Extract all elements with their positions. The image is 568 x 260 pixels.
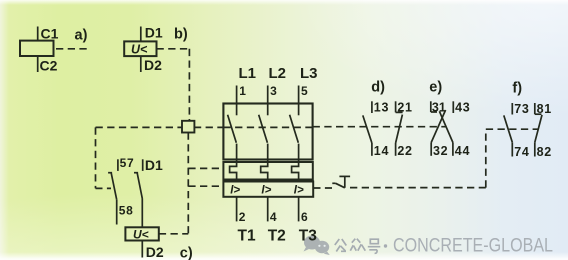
aux contact 13-14 NO [363, 101, 389, 158]
svg-text:L1: L1 [239, 65, 257, 82]
svg-text:58: 58 [119, 203, 134, 217]
contact blade 73-74 [504, 115, 513, 142]
watermark text 公众号 [335, 239, 381, 254]
svg-text:D1: D1 [145, 25, 163, 41]
svg-text:T1: T1 [238, 227, 256, 244]
wire dashed riser bus below square [187, 133, 189, 234]
coil box a [20, 41, 54, 56]
aux contact 43-44 NO [439, 101, 470, 158]
svg-text:3: 3 [270, 84, 277, 98]
undervoltage release b) U< D1-D2 [124, 25, 189, 121]
wire lead terminal 2 [236, 197, 238, 222]
wire pole 3 upper stub [298, 104, 300, 116]
breaker pole 1 contact [228, 104, 237, 160]
aux contact 21-22 NC [396, 101, 413, 158]
svg-text:T3: T3 [299, 227, 317, 244]
blade hook [108, 172, 112, 174]
wire to U< box c [141, 199, 143, 228]
wire pole 2 upper stub [267, 104, 269, 116]
breaker main contact box Q1 [223, 104, 312, 160]
watermark dot [384, 244, 387, 247]
svg-text:T2: T2 [268, 227, 286, 244]
latch post [344, 176, 346, 187]
wire D2 lead [141, 241, 143, 258]
contact blade pole 2 [259, 115, 268, 143]
contact blade D1 [137, 173, 142, 199]
terminal tick 14 [371, 143, 373, 156]
contact blade pole 3 [290, 115, 299, 143]
svg-text:73: 73 [514, 102, 529, 116]
svg-text:43: 43 [455, 101, 470, 115]
svg-text:D2: D2 [144, 57, 162, 73]
wire dashed from U< box c to riser bus [159, 233, 189, 235]
svg-text:1: 1 [239, 84, 246, 98]
terminal tick 31 [430, 101, 432, 112]
terminal tick 13 [371, 101, 373, 113]
terminal tick 21 [395, 101, 397, 112]
svg-text:74: 74 [514, 145, 529, 159]
contact blade 43-44 [439, 111, 453, 142]
svg-text:13: 13 [374, 101, 389, 115]
aux contact D1 of release c [134, 157, 163, 227]
wire lead terminal 6 [298, 197, 300, 222]
wire C1 lead [37, 27, 39, 41]
svg-text:22: 22 [397, 144, 412, 158]
latch crossbar [339, 175, 350, 177]
svg-text:5: 5 [301, 84, 308, 98]
terminal tick 43 [452, 101, 454, 113]
thermal element pole 1 [230, 160, 237, 182]
wire lead terminal 1 [236, 86, 238, 104]
terminal tick 57 [117, 159, 119, 171]
svg-text:32: 32 [433, 144, 448, 158]
terminal tick 81 [534, 103, 536, 114]
NC seat 31 [431, 111, 437, 113]
wire dashed trip line from magnetic box [313, 187, 332, 189]
shunt release a) coil C1-C2 [20, 25, 88, 73]
svg-text:U<: U< [131, 43, 148, 57]
wire dashed actuating line f [486, 128, 538, 130]
terminal tick 32 [430, 143, 432, 156]
contact blade 31-32 [431, 110, 445, 143]
svg-text:c): c) [180, 246, 193, 260]
wire dashed riser to contacts f [485, 129, 487, 187]
contact blade 81-82 [535, 115, 542, 142]
wire dashed left drop to contact 57 [95, 127, 97, 188]
svg-text:U<: U< [133, 227, 149, 241]
wire C2 lead [37, 56, 39, 72]
wire dashed stub from coil a [56, 48, 88, 50]
breaker pole 3 contact [290, 104, 299, 160]
wire pole 1 lower stub [236, 144, 238, 160]
svg-text:14: 14 [374, 144, 389, 158]
svg-text:I>: I> [294, 185, 304, 197]
aux contact 73-74 NO [504, 102, 530, 159]
svg-text:6: 6 [301, 210, 308, 224]
svg-text:a): a) [75, 27, 88, 43]
breaker pole 2 contact [259, 104, 268, 160]
wire to 58 [116, 200, 118, 225]
aux contact 57-58 [108, 156, 134, 225]
svg-text:f): f) [512, 81, 522, 97]
thermal element pole 3 [292, 160, 299, 182]
svg-text:e): e) [429, 79, 442, 95]
wire D1 lead [140, 27, 142, 42]
wire dashed left bottom to blade 57 [96, 187, 112, 189]
wire lead terminal 3 [267, 86, 269, 104]
svg-text:4: 4 [270, 210, 277, 224]
aux contact 81-82 NC [535, 102, 552, 159]
wire dashed linkage to aux contacts d e [313, 126, 446, 128]
wire dashed link to thermal box [188, 167, 223, 169]
wire dashed linkage horizontal to breaker [194, 126, 224, 128]
contact blade 13-14 [363, 115, 372, 143]
wire pole 2 lower stub [267, 144, 269, 160]
svg-text:81: 81 [537, 102, 552, 116]
wire dashed from U< box b to riser [157, 48, 190, 50]
wire dashed riser down to linkage square [188, 49, 190, 121]
svg-text:82: 82 [537, 145, 552, 159]
thermal element pole 2 [261, 160, 268, 182]
wire lead terminal 5 [298, 86, 300, 104]
thermal overload box [223, 162, 312, 180]
svg-text:D2: D2 [146, 244, 164, 260]
svg-text:L2: L2 [269, 65, 287, 82]
wire pole 3 lower stub [298, 144, 300, 160]
svg-text:CONCRETE-GLOBAL: CONCRETE-GLOBAL [393, 236, 553, 257]
svg-text:2: 2 [239, 210, 246, 224]
svg-text:L3: L3 [300, 65, 318, 82]
svg-text:21: 21 [397, 101, 412, 115]
svg-text:57: 57 [120, 156, 135, 170]
U< box c [125, 227, 158, 240]
wire pole 1 upper stub [236, 104, 238, 116]
wire dashed linkage through breaker box [223, 126, 312, 128]
wire D2 lead [140, 56, 142, 72]
undervoltage release c) U< D2 [125, 227, 192, 260]
wire dashed trip line to riser [350, 187, 486, 189]
svg-text:d): d) [371, 79, 385, 95]
trip latch symbol [332, 176, 350, 187]
latch lever [336, 183, 345, 188]
wire lead terminal 4 [267, 197, 269, 222]
svg-text:D1: D1 [145, 157, 163, 173]
NC seat 21 [396, 111, 403, 113]
NC seat 81 [535, 113, 542, 115]
terminal tick 73 [511, 103, 513, 115]
svg-text:I>: I> [230, 185, 240, 197]
terminal tick 22 [395, 143, 397, 156]
U< box b [124, 41, 156, 56]
terminal tick 82 [534, 142, 536, 156]
magnetic release box [223, 182, 313, 197]
svg-text:C1: C1 [41, 25, 59, 41]
mechanical linkage square [182, 121, 194, 133]
latch hook [332, 182, 335, 184]
svg-text:44: 44 [455, 144, 470, 158]
terminal tick 74 [511, 142, 513, 156]
terminal tick D1 [142, 159, 144, 171]
contact blade pole 1 [228, 115, 237, 143]
svg-text:C2: C2 [40, 57, 58, 73]
svg-text:I>: I> [261, 185, 271, 197]
contact blade 57-58 [111, 173, 117, 200]
blade hook [134, 172, 138, 174]
terminal tick 44 [452, 143, 454, 156]
aux contact 31-32 NC [431, 101, 449, 158]
contact blade 21-22 [396, 115, 403, 143]
svg-text:b): b) [174, 27, 188, 43]
watermark wechat icon [304, 236, 330, 256]
wire dashed link to magnetic box [188, 185, 223, 187]
wire dashed linkage horizontal left section [96, 126, 183, 128]
